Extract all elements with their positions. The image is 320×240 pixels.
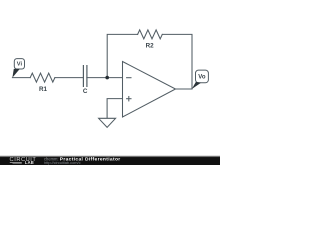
node Vi label bubble xyxy=(14,59,24,69)
ground xyxy=(99,118,116,127)
node Vo label bubble xyxy=(196,70,209,83)
wire R2 to output node xyxy=(162,34,192,89)
svg-text:http://circuitlab.com/c: http://circuitlab.com/c xyxy=(44,160,81,165)
capacitor C plate left xyxy=(82,66,84,87)
junction dot at inverting input node xyxy=(105,76,109,80)
op-amp plus sign xyxy=(127,98,131,100)
svg-text:LAB: LAB xyxy=(25,160,34,165)
node Vi pointer tail xyxy=(12,69,19,78)
resistor R1 xyxy=(30,73,55,82)
svg-text:Vi: Vi xyxy=(17,62,23,68)
op-amp minus sign xyxy=(127,77,131,79)
footer CircuitLab logo underline dashes xyxy=(10,161,22,163)
resistor R2 xyxy=(138,30,163,39)
wire op-amp output xyxy=(176,88,193,90)
capacitor C plate right xyxy=(86,66,88,87)
wire C to op-amp inverting input xyxy=(87,77,123,79)
svg-text:Vo: Vo xyxy=(198,74,206,80)
svg-text:C: C xyxy=(83,88,88,95)
op-amp U1 triangle xyxy=(123,62,176,118)
wire feedback up and to R2 xyxy=(107,34,137,77)
node Vo pointer tail xyxy=(192,82,201,89)
wire non-inverting input to ground xyxy=(107,99,122,118)
wire R1 to C xyxy=(55,77,84,79)
wire input to R1 xyxy=(12,77,30,79)
svg-text:R2: R2 xyxy=(146,43,155,50)
svg-text:R1: R1 xyxy=(39,86,48,93)
